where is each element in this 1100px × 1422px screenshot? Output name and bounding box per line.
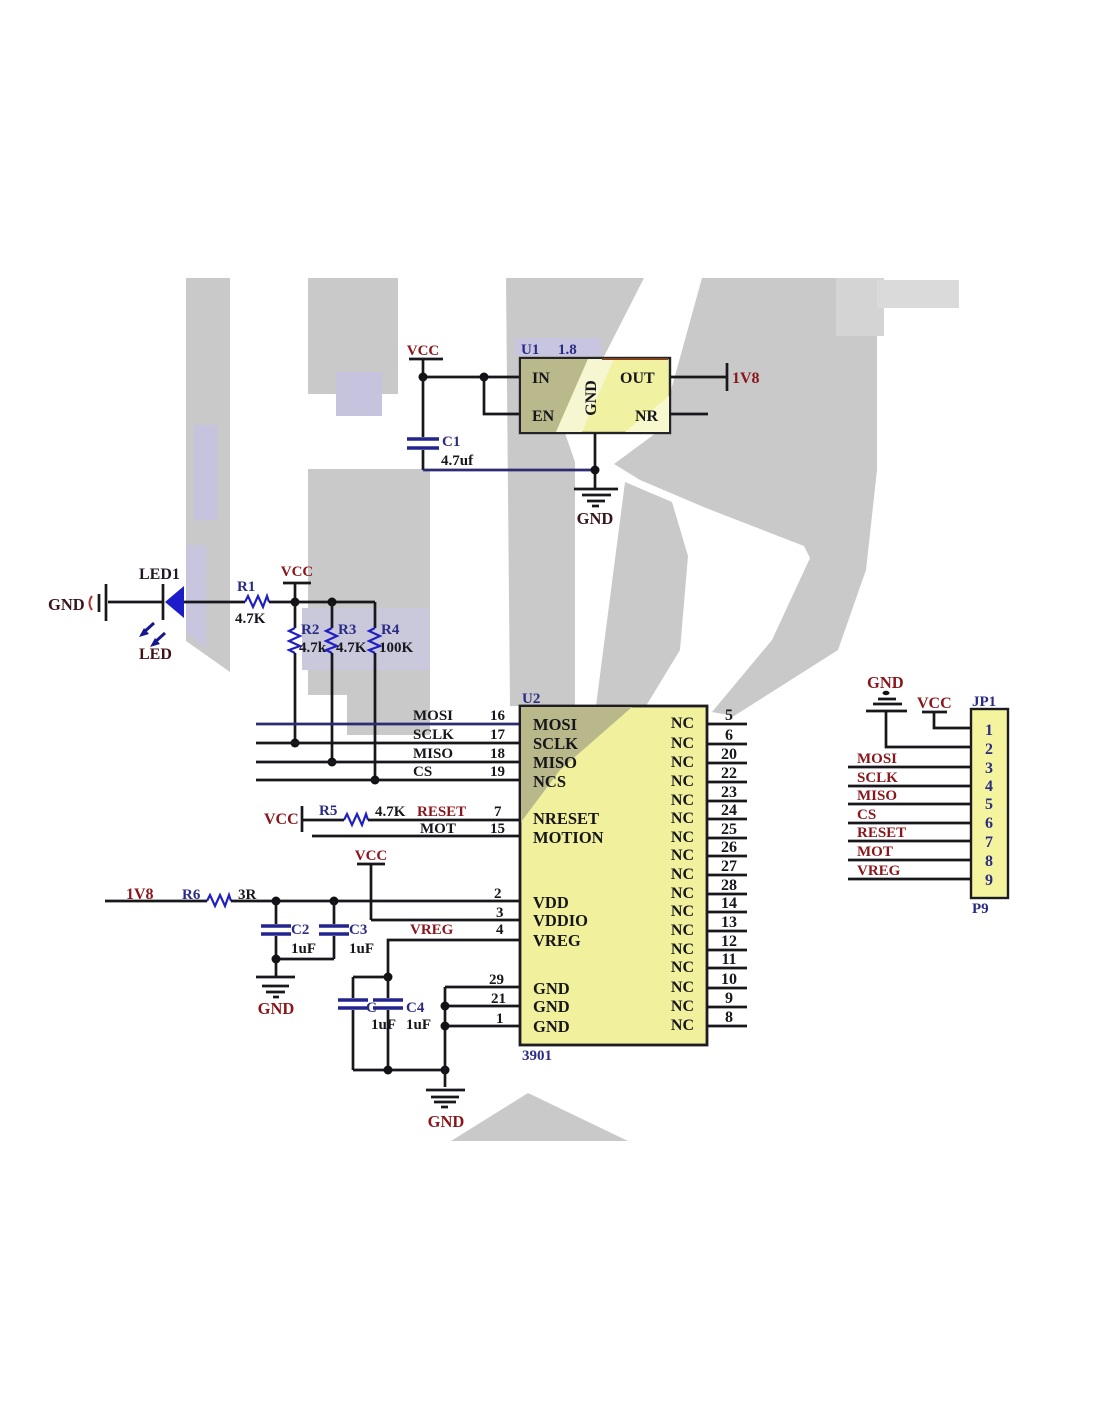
svg-text:LED1: LED1 — [139, 566, 180, 583]
svg-text:NC: NC — [671, 735, 694, 752]
svg-text:5: 5 — [985, 796, 993, 813]
svg-text:GND: GND — [533, 997, 570, 1016]
U2 pin 27 NC — [671, 858, 747, 883]
wire LED1 to R1 — [184, 601, 245, 604]
wire U1 GND pin down — [594, 433, 597, 488]
node junction VREG/C4 — [384, 973, 393, 982]
U2 pin 20 NC — [671, 746, 747, 771]
wire U2 GND pin 21 — [445, 991, 520, 1007]
svg-text:NRESET: NRESET — [533, 809, 599, 828]
wire C4/C5 bottom rail — [353, 1066, 450, 1075]
svg-text:7: 7 — [985, 834, 993, 851]
GND terminal (LED row) — [48, 584, 106, 621]
svg-text:OUT: OUT — [620, 370, 655, 387]
svg-text:NR: NR — [635, 408, 659, 425]
svg-text:MOT: MOT — [857, 844, 893, 860]
svg-text:U1: U1 — [521, 342, 539, 358]
svg-text:CS: CS — [857, 807, 876, 823]
node junction R3/MISO — [328, 758, 337, 767]
svg-text:NC: NC — [671, 979, 694, 996]
svg-text:NC: NC — [671, 866, 694, 883]
svg-text:6: 6 — [985, 815, 993, 832]
wire MOSI to JP1 pin3 — [848, 751, 971, 767]
U2 pin 13 NC — [671, 914, 747, 939]
node junction R4/CS — [371, 776, 380, 785]
svg-text:NC: NC — [671, 754, 694, 771]
svg-text:1uF: 1uF — [291, 941, 316, 957]
svg-text:VCC: VCC — [281, 564, 314, 580]
svg-text:C3: C3 — [349, 922, 367, 938]
svg-text:4: 4 — [496, 922, 504, 938]
capacitor C4 — [371, 977, 431, 1070]
wire U1 OUT to 1V8 — [670, 376, 727, 379]
VCC supply symbol (VDDIO) — [355, 848, 388, 920]
svg-text:5: 5 — [725, 707, 733, 724]
svg-text:NC: NC — [671, 829, 694, 846]
svg-text:MOSI: MOSI — [413, 708, 453, 724]
IC U2 (3901 sensor) — [520, 691, 707, 1064]
svg-text:MISO: MISO — [413, 746, 453, 762]
wire VCC rail to R4 — [295, 601, 375, 604]
node junction C3/VDD — [330, 897, 339, 906]
svg-text:3901: 3901 — [522, 1048, 552, 1064]
U2 pin 23 NC — [671, 784, 747, 809]
svg-text:28: 28 — [721, 877, 737, 894]
wire C1 to U1 GND pin — [423, 469, 595, 472]
resistor R1 — [235, 579, 295, 627]
svg-text:U2: U2 — [522, 691, 540, 707]
svg-text:12: 12 — [721, 933, 737, 950]
svg-text:SCLK: SCLK — [533, 734, 578, 753]
svg-text:NC: NC — [671, 922, 694, 939]
svg-text:3: 3 — [985, 760, 993, 777]
capacitor C2 — [261, 901, 316, 959]
svg-text:R4: R4 — [381, 622, 400, 638]
svg-text:19: 19 — [490, 764, 505, 780]
svg-text:IN: IN — [532, 370, 550, 387]
U2 pin 25 NC — [671, 821, 747, 846]
svg-text:VCC: VCC — [917, 695, 952, 712]
wire VCC node to U1 IN — [423, 376, 520, 379]
wire U2 GND pin 1 — [445, 1011, 520, 1027]
svg-text:C1: C1 — [442, 434, 460, 450]
svg-text:20: 20 — [721, 746, 737, 763]
svg-text:JP1: JP1 — [972, 694, 996, 710]
capacitor C1 — [407, 377, 474, 470]
resistor R6 — [182, 887, 257, 906]
U2 pin 14 NC — [671, 895, 747, 920]
svg-text:VCC: VCC — [355, 848, 388, 864]
svg-text:VDD: VDD — [533, 893, 569, 912]
svg-text:NC: NC — [671, 792, 694, 809]
connector JP1 — [971, 694, 1008, 917]
svg-text:CS: CS — [413, 764, 432, 780]
U2 pin 8 NC — [671, 1009, 747, 1034]
resistor R2 — [289, 602, 327, 744]
svg-text:29: 29 — [489, 972, 504, 988]
svg-text:MOSI: MOSI — [857, 751, 897, 767]
svg-text:LED: LED — [139, 646, 172, 663]
U2 pin 6 NC — [671, 727, 747, 752]
svg-text:NC: NC — [671, 903, 694, 920]
svg-text:2: 2 — [985, 741, 993, 758]
svg-text:MOTION: MOTION — [533, 828, 604, 847]
svg-text:NC: NC — [671, 847, 694, 864]
U2 pin 12 NC — [671, 933, 747, 958]
svg-text:GND: GND — [533, 979, 570, 998]
ground (U2) — [426, 1070, 465, 1131]
GND terminal (JP1) — [866, 673, 971, 747]
svg-text:GND: GND — [428, 1112, 465, 1131]
svg-text:VREG: VREG — [857, 863, 901, 879]
svg-text:4.7K: 4.7K — [235, 611, 266, 627]
svg-text:MISO: MISO — [533, 753, 577, 772]
svg-text:NC: NC — [671, 941, 694, 958]
VCC tick (JP1) — [917, 695, 971, 728]
wire R6 to U2 VDD — [231, 886, 520, 902]
svg-text:6: 6 — [725, 727, 733, 744]
svg-text:18: 18 — [490, 746, 505, 762]
svg-text:2: 2 — [494, 886, 502, 902]
wire MISO bus — [256, 746, 520, 762]
svg-text:14: 14 — [721, 895, 737, 912]
svg-text:NCS: NCS — [533, 772, 566, 791]
svg-text:1uF: 1uF — [349, 941, 374, 957]
wire VCC to U2 VDDIO — [371, 905, 520, 921]
U2 pin 11 NC — [671, 951, 747, 976]
svg-text:27: 27 — [721, 858, 737, 875]
svg-text:GND: GND — [48, 595, 85, 614]
svg-text:1V8: 1V8 — [732, 370, 760, 387]
svg-text:9: 9 — [725, 990, 733, 1007]
svg-text:MISO: MISO — [857, 788, 897, 804]
svg-text:8: 8 — [985, 853, 993, 870]
svg-text:11: 11 — [721, 951, 736, 968]
svg-text:C4: C4 — [406, 1000, 425, 1016]
svg-text:4.7uf: 4.7uf — [441, 453, 474, 469]
resistor R3 — [326, 602, 367, 762]
node junction at EN branch — [480, 373, 489, 382]
node junction VCC rail — [291, 598, 300, 607]
node 1V8 (VDD row) — [126, 886, 154, 903]
svg-text:9: 9 — [985, 872, 993, 889]
node junction C2/VDD — [272, 897, 281, 906]
svg-text:R2: R2 — [301, 622, 319, 638]
wire SCLK bus — [256, 727, 520, 743]
capacitor C3 — [319, 901, 374, 959]
U2 pin 28 NC — [671, 877, 747, 902]
svg-text:SCLK: SCLK — [857, 770, 898, 786]
wire VREG to JP1 pin9 — [848, 863, 971, 879]
wire RESET to JP1 pin7 — [848, 825, 971, 841]
svg-text:NC: NC — [671, 773, 694, 790]
svg-text:EN: EN — [532, 408, 555, 425]
U2 pin 5 NC — [671, 707, 747, 732]
svg-text:4.7K: 4.7K — [336, 640, 367, 656]
svg-text:1uF: 1uF — [406, 1017, 431, 1033]
svg-text:1: 1 — [496, 1011, 504, 1027]
svg-text:22: 22 — [721, 765, 737, 782]
VCC supply symbol (LED row) — [281, 564, 314, 602]
svg-text:1.8: 1.8 — [558, 342, 577, 358]
svg-text:4.7k: 4.7k — [299, 640, 327, 656]
wire SCLK to JP1 pin4 — [848, 770, 971, 786]
svg-text:15: 15 — [490, 821, 505, 837]
svg-text:GND: GND — [577, 509, 614, 528]
svg-text:NC: NC — [671, 959, 694, 976]
wire MOT to U2 MOTION — [312, 821, 520, 837]
svg-text:VCC: VCC — [264, 811, 299, 828]
resistor R4 — [369, 602, 414, 780]
svg-text:8: 8 — [725, 1009, 733, 1026]
VCC tick (R5 row) — [264, 806, 302, 832]
wire MOT to JP1 pin8 — [848, 844, 971, 860]
svg-text:1: 1 — [985, 722, 993, 739]
node junction at U1 ground — [591, 466, 600, 475]
svg-text:GND: GND — [258, 999, 295, 1018]
wire C2-C3 bottoms — [272, 955, 335, 977]
svg-text:13: 13 — [721, 914, 737, 931]
svg-text:SCLK: SCLK — [413, 727, 454, 743]
svg-text:GND: GND — [533, 1017, 570, 1036]
wire MISO to JP1 pin5 — [848, 788, 971, 804]
svg-text:P9: P9 — [972, 901, 989, 917]
svg-text:MOT: MOT — [420, 821, 456, 837]
node junction at R3 top — [328, 598, 337, 607]
U2 pin 22 NC — [671, 765, 747, 790]
svg-text:C2: C2 — [291, 922, 309, 938]
wire CS bus — [256, 764, 520, 780]
svg-text:26: 26 — [721, 839, 737, 856]
svg-text:24: 24 — [721, 802, 737, 819]
wire GND collector vertical — [441, 987, 450, 1070]
svg-text:1uF: 1uF — [371, 1017, 396, 1033]
op-amp U1 regulator box — [515, 338, 670, 433]
svg-text:NC: NC — [671, 715, 694, 732]
U2 pin 24 NC — [671, 802, 747, 827]
node junction R2/SCLK — [291, 739, 300, 748]
capacitor C5 — [338, 977, 388, 1070]
node 1V8 tick + label — [727, 363, 760, 391]
svg-text:25: 25 — [721, 821, 737, 838]
node junction at VCC/C1 — [419, 373, 428, 382]
wire 1V8 to R6 — [105, 900, 207, 903]
svg-text:R3: R3 — [338, 622, 356, 638]
resistor R5 — [303, 803, 406, 825]
svg-text:VDDIO: VDDIO — [533, 911, 588, 930]
U2 pin 26 NC — [671, 839, 747, 864]
svg-text:10: 10 — [721, 971, 737, 988]
svg-text:16: 16 — [490, 708, 506, 724]
svg-text:RESET: RESET — [417, 804, 466, 820]
wire GND to LED1 — [108, 601, 163, 604]
wire U2 GND pin 29 — [445, 972, 520, 988]
wire EN branch — [484, 377, 520, 414]
wire VREG net — [388, 922, 520, 977]
svg-text:23: 23 — [721, 784, 737, 801]
ground (C2/C3) — [256, 977, 295, 1018]
U2 pin 9 NC — [671, 990, 747, 1015]
svg-text:NC: NC — [671, 1017, 694, 1034]
svg-text:R1: R1 — [237, 579, 255, 595]
VCC supply symbol (top, feeding U1) — [407, 343, 443, 377]
wire RESET to U2 NRESET — [368, 804, 520, 820]
svg-text:NC: NC — [671, 885, 694, 902]
svg-text:GND: GND — [867, 673, 904, 692]
wire U1 NR stub — [670, 413, 708, 416]
U2 pin 10 NC — [671, 971, 747, 996]
svg-text:NC: NC — [671, 998, 694, 1015]
svg-text:17: 17 — [490, 727, 506, 743]
svg-text:100K: 100K — [379, 640, 414, 656]
wire CS to JP1 pin6 — [848, 807, 971, 823]
svg-text:7: 7 — [494, 804, 502, 820]
svg-text:VCC: VCC — [407, 343, 440, 359]
LED LED1 — [139, 566, 184, 663]
svg-text:MOSI: MOSI — [533, 715, 577, 734]
svg-text:R5: R5 — [319, 803, 337, 819]
svg-text:R6: R6 — [182, 887, 201, 903]
svg-text:NC: NC — [671, 810, 694, 827]
svg-text:3: 3 — [496, 905, 504, 921]
ground (U1) — [574, 489, 618, 528]
svg-text:VREG: VREG — [410, 922, 454, 938]
svg-text:21: 21 — [491, 991, 506, 1007]
svg-text:4.7K: 4.7K — [375, 804, 406, 820]
svg-text:RESET: RESET — [857, 825, 906, 841]
svg-text:4: 4 — [985, 778, 993, 795]
svg-text:VREG: VREG — [533, 931, 581, 950]
svg-text:GND: GND — [583, 380, 600, 416]
wire MOSI bus — [256, 708, 520, 724]
